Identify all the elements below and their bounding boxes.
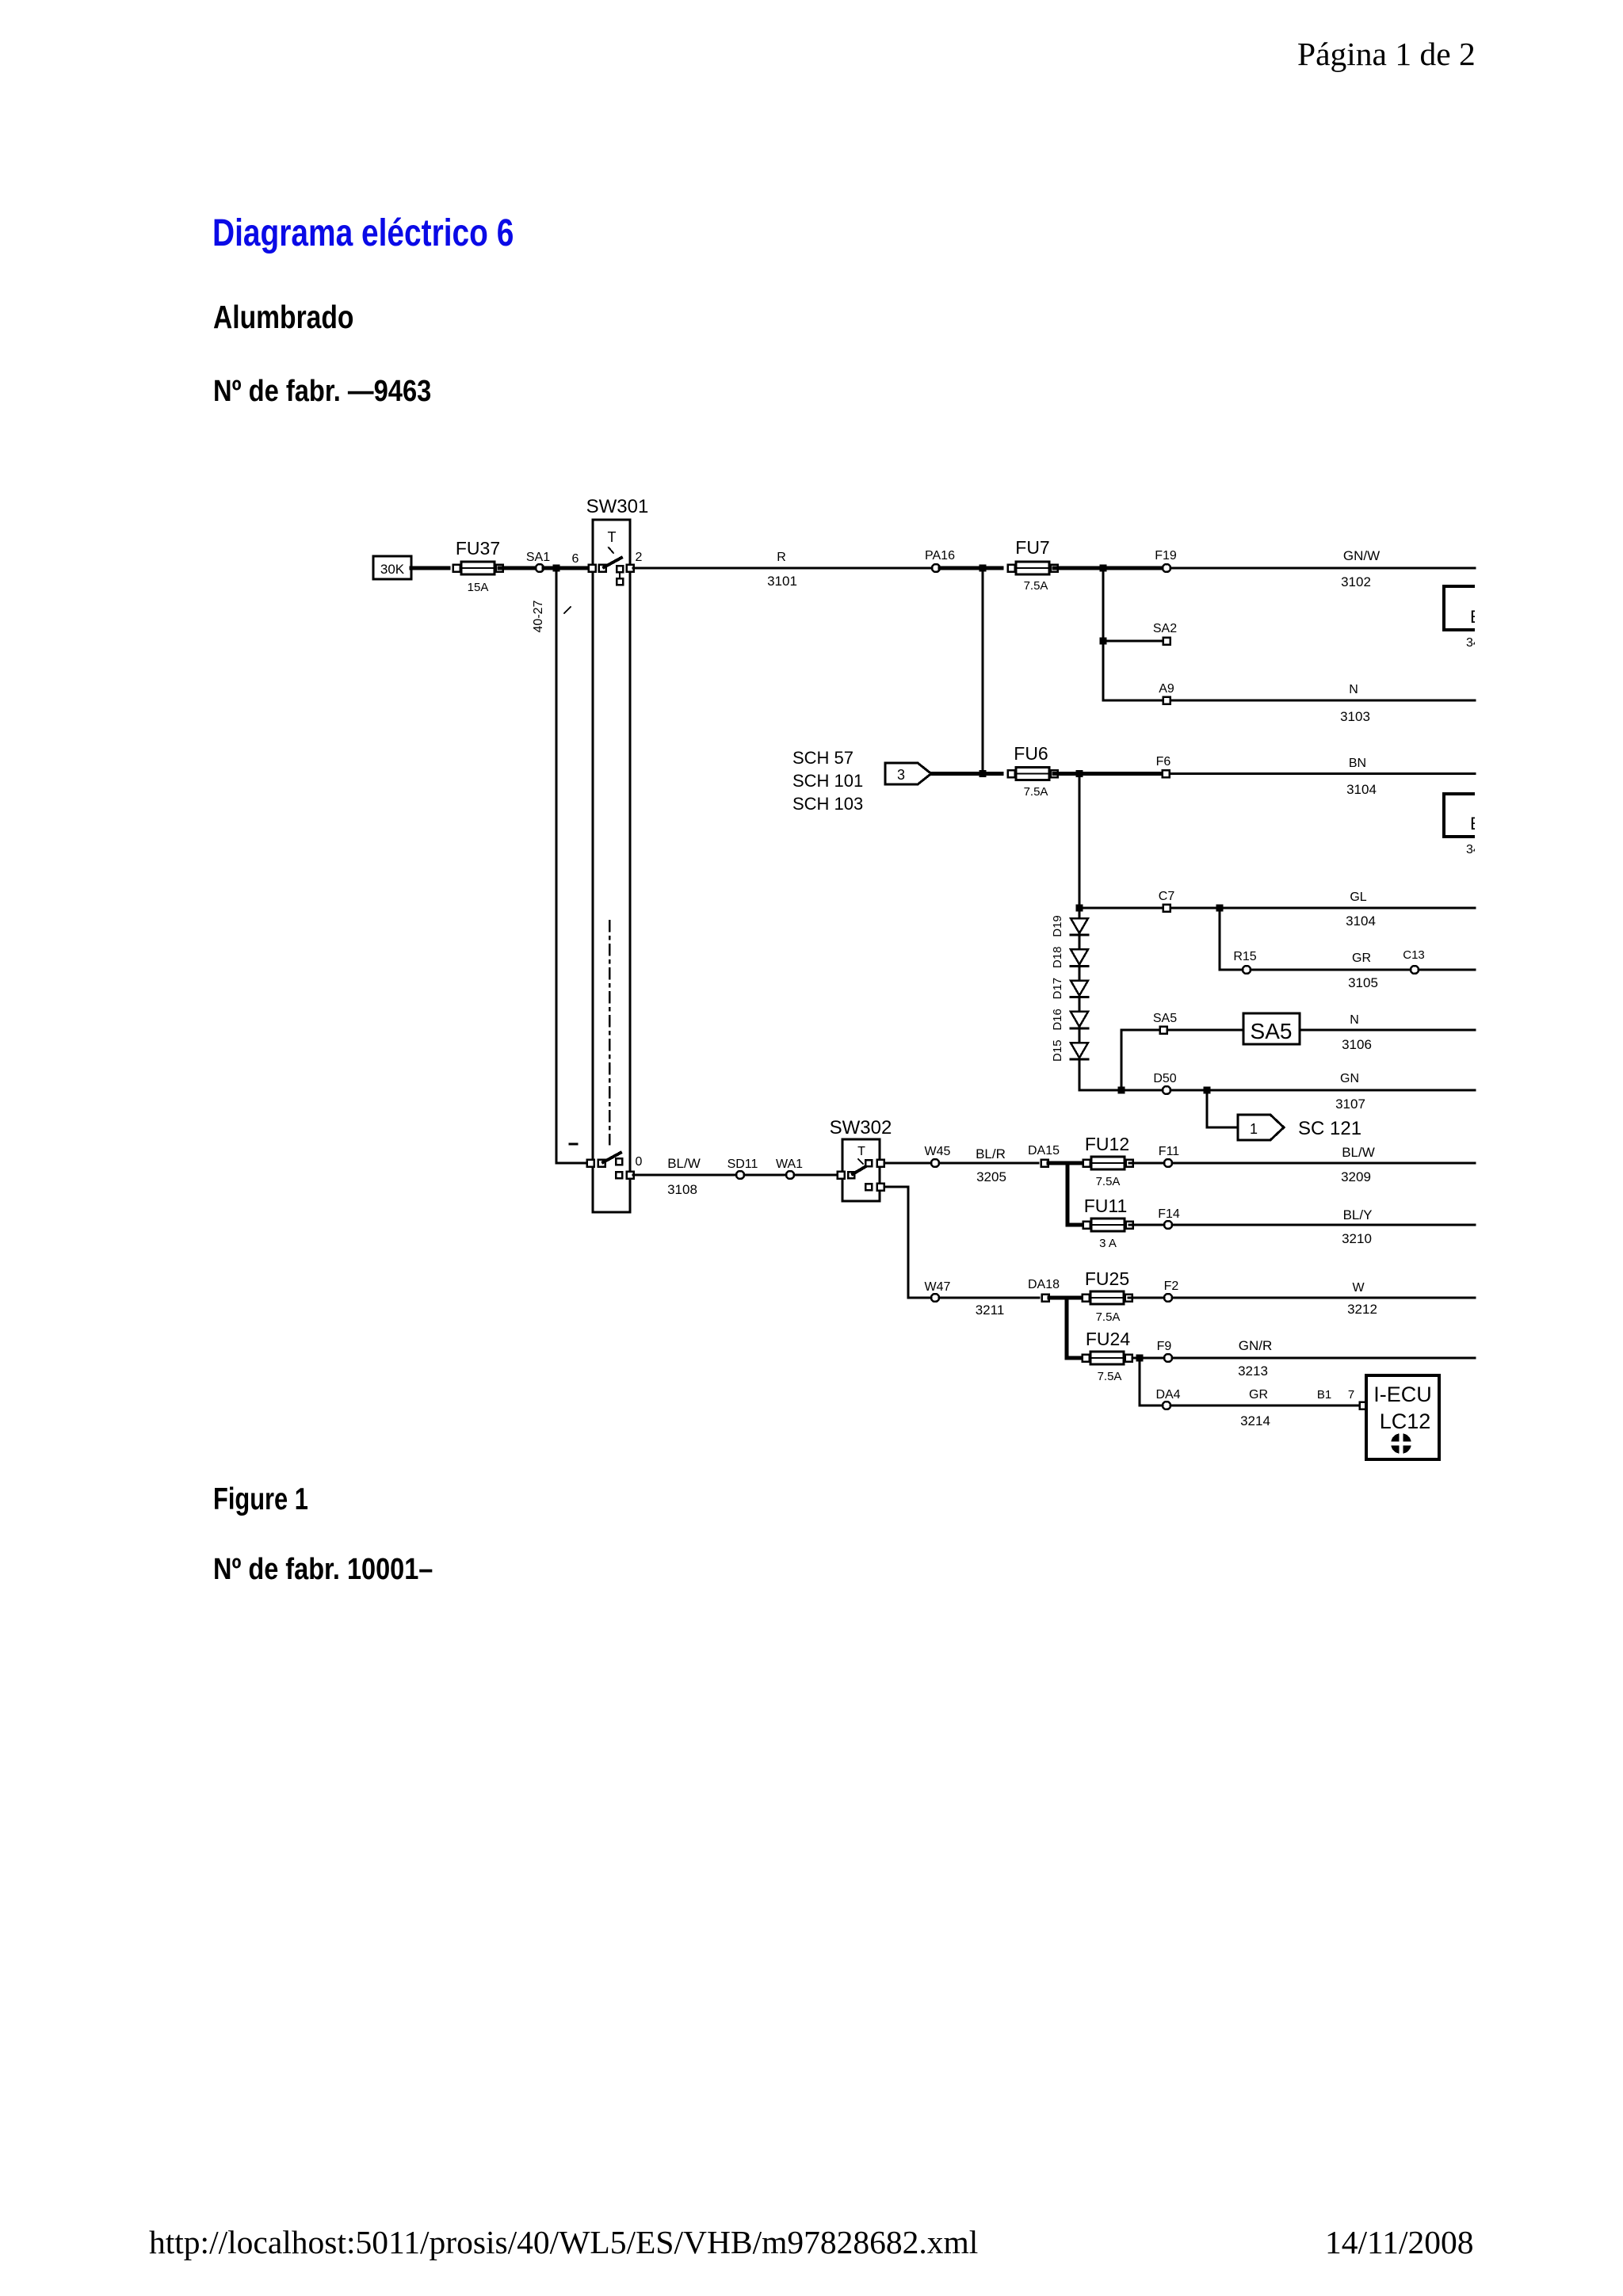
svg-text:WA1: WA1 <box>776 1158 803 1171</box>
SW302 contact lower <box>865 1184 872 1190</box>
svg-text:1: 1 <box>1250 1121 1258 1137</box>
wire N 3106 <box>1300 1029 1475 1032</box>
wire FU12 to F11 <box>1129 1162 1163 1165</box>
wire FU7 to F19 <box>1054 566 1162 570</box>
junction diode chain feed <box>1076 770 1083 777</box>
svg-text:F9: F9 <box>1157 1340 1172 1353</box>
svg-text:7.5A: 7.5A <box>1024 579 1048 593</box>
wire N 3103 <box>1170 700 1475 702</box>
svg-text:BL/R: BL/R <box>976 1146 1006 1161</box>
svg-text:FU7: FU7 <box>1015 537 1049 558</box>
SW301 contact 0 <box>616 1155 643 1178</box>
SW301 pin 6 <box>572 552 596 572</box>
svg-text:N: N <box>1349 683 1358 696</box>
svg-text:3214: 3214 <box>1240 1413 1270 1428</box>
wire BL/W 3209 <box>1172 1162 1475 1165</box>
svg-text:SW301: SW301 <box>586 496 649 517</box>
svg-text:W45: W45 <box>925 1145 951 1158</box>
svg-text:R15: R15 <box>1233 950 1256 963</box>
svg-text:40-27: 40-27 <box>532 600 545 632</box>
svg-text:F2: F2 <box>1164 1280 1179 1293</box>
diode D18 <box>1051 947 1088 969</box>
fuse FU6 <box>1008 768 1058 780</box>
wire to A9 <box>1103 700 1163 702</box>
svg-text:F6: F6 <box>1156 755 1171 769</box>
svg-text:DA15: DA15 <box>1028 1144 1060 1158</box>
SW302 pin left <box>838 1172 855 1179</box>
fuse FU11 <box>1083 1219 1133 1231</box>
svg-text:SD11: SD11 <box>727 1158 758 1171</box>
svg-text:7.5A: 7.5A <box>1098 1370 1122 1383</box>
svg-text:3108: 3108 <box>667 1182 697 1197</box>
SW301 lever bottom <box>598 1153 623 1167</box>
caption "Figure 1" <box>213 1484 308 1515</box>
connector F11 <box>1159 1145 1179 1167</box>
connector PA16 <box>925 549 955 572</box>
wire PA16 to FU7 <box>940 566 1002 570</box>
fuse FU25 <box>1083 1291 1132 1304</box>
SW301 pin 2 <box>627 551 643 572</box>
svg-text:BL/Y: BL/Y <box>1343 1207 1373 1222</box>
svg-text:3104: 3104 <box>1346 913 1376 929</box>
SW301 T marking <box>608 529 617 553</box>
wire down to SA2 / A9 <box>1102 571 1105 700</box>
svg-text:D18: D18 <box>1051 947 1064 969</box>
svg-text:GR: GR <box>1249 1388 1268 1402</box>
svg-text:T: T <box>857 1145 865 1158</box>
svg-text:FU24: FU24 <box>1086 1329 1130 1349</box>
svg-text:W47: W47 <box>925 1280 951 1294</box>
wire DA15 to FU12 <box>1048 1161 1083 1165</box>
svg-text:FU11: FU11 <box>1084 1196 1128 1216</box>
svg-text:SC 121: SC 121 <box>1298 1118 1361 1139</box>
svg-text:7.5A: 7.5A <box>1024 785 1048 799</box>
page footer URL <box>149 2226 978 2260</box>
wire FU6 to F6 <box>1054 772 1162 776</box>
wire R 3101 <box>633 567 932 570</box>
fuse FU24 <box>1083 1352 1132 1364</box>
subtitle "Nº de fabr. —9463" <box>213 376 431 406</box>
svg-text:3213: 3213 <box>1238 1363 1268 1379</box>
battery feed 30K <box>373 556 411 579</box>
svg-text:3105: 3105 <box>1348 975 1378 990</box>
svg-text:D15: D15 <box>1051 1039 1064 1062</box>
svg-text:15A: 15A <box>468 581 489 594</box>
feed wire DA15 down to FU11 <box>1067 1163 1086 1225</box>
svg-text:3104: 3104 <box>1346 782 1377 797</box>
svg-text:3211: 3211 <box>976 1302 1005 1318</box>
connector SD11 <box>727 1158 758 1179</box>
svg-text:D17: D17 <box>1051 978 1064 1000</box>
svg-text:W: W <box>1352 1281 1365 1295</box>
svg-text:7.5A: 7.5A <box>1096 1310 1121 1324</box>
svg-text:SCH 101: SCH 101 <box>792 771 863 791</box>
svg-text:FU12: FU12 <box>1085 1134 1129 1154</box>
svg-text:BN: BN <box>1349 757 1366 770</box>
stub wire to SA2 <box>1106 640 1163 643</box>
svg-text:BL/W: BL/W <box>1342 1145 1375 1160</box>
junction feed to FU6 <box>980 565 987 572</box>
svg-text:SCH 103: SCH 103 <box>792 794 863 814</box>
connector 1 (SC 121) <box>1238 1115 1284 1140</box>
connector DA15 <box>1028 1144 1060 1167</box>
svg-text:D19: D19 <box>1051 915 1064 937</box>
svg-text:FU6: FU6 <box>1014 743 1048 764</box>
svg-text:3: 3 <box>897 767 905 783</box>
lamp unit EL clipped top <box>1444 586 1491 650</box>
unit SA5 <box>1243 1013 1300 1044</box>
fuse FU7 <box>1008 562 1058 574</box>
svg-text:3107: 3107 <box>1335 1097 1365 1112</box>
wire BL/Y 3210 <box>1172 1224 1475 1226</box>
svg-text:7: 7 <box>1348 1388 1354 1402</box>
connector SA2 <box>1153 622 1177 645</box>
wire GN/R 3213 <box>1172 1357 1475 1360</box>
wire to R15 <box>1220 969 1243 971</box>
svg-text:SW302: SW302 <box>830 1117 892 1138</box>
diode D15 <box>1051 1039 1088 1062</box>
svg-text:34: 34 <box>1466 843 1480 856</box>
SW302 contact upper <box>865 1160 872 1166</box>
wire BL/W 3108 <box>633 1174 839 1177</box>
junction diode top / C7 row <box>1076 905 1083 912</box>
junction SA5 branch <box>1118 1087 1125 1094</box>
wire DA18 to FU25 <box>1049 1296 1083 1300</box>
svg-text:R: R <box>777 551 786 564</box>
svg-text:3 A: 3 A <box>1099 1237 1117 1250</box>
connector F19 <box>1155 549 1177 572</box>
svg-text:3210: 3210 <box>1342 1231 1372 1246</box>
wire feed down to FU6 row <box>982 571 984 773</box>
svg-text:0: 0 <box>636 1155 643 1169</box>
diode chain wire <box>1079 776 1081 1090</box>
svg-text:6: 6 <box>572 552 579 566</box>
svg-text:D16: D16 <box>1051 1009 1064 1031</box>
connector D50 <box>1153 1072 1176 1094</box>
connector SA5 <box>1153 1012 1177 1034</box>
svg-text:3209: 3209 <box>1341 1169 1371 1184</box>
connector W45 <box>925 1145 951 1167</box>
caption "Nº de fabr. 10001–" <box>213 1554 433 1585</box>
svg-text:FU37: FU37 <box>456 538 500 559</box>
SW302 T marking <box>857 1145 865 1164</box>
svg-text:3212: 3212 <box>1347 1302 1377 1317</box>
svg-text:34: 34 <box>1466 636 1480 650</box>
svg-text:GR: GR <box>1352 952 1371 965</box>
switch SW302 body <box>842 1139 880 1201</box>
SW301 pin 1 tick <box>570 1143 577 1146</box>
junction I-ECU branch <box>1136 1355 1144 1362</box>
tick label on vertical wire <box>564 607 571 613</box>
wire GN 3107 <box>1079 1089 1475 1092</box>
wire down to R15 row <box>1219 908 1221 970</box>
svg-text:F11: F11 <box>1159 1145 1179 1158</box>
feed wire DA18 down to FU24 <box>1067 1298 1086 1358</box>
svg-text:SA5: SA5 <box>1153 1012 1177 1025</box>
SW302 lever <box>853 1164 870 1174</box>
svg-text:B1: B1 <box>1317 1388 1331 1402</box>
wire GN/W 3102 <box>1171 567 1475 570</box>
svg-text:EL: EL <box>1470 607 1491 627</box>
connector WA1 <box>776 1158 803 1179</box>
svg-text:GN/W: GN/W <box>1343 548 1380 563</box>
svg-text:SA2: SA2 <box>1153 622 1177 635</box>
wire GL 3104 <box>1170 907 1475 910</box>
wire W 3212 <box>1172 1297 1475 1299</box>
svg-text:T: T <box>608 529 617 545</box>
wire SA1 to SW301 pin 6 <box>544 566 590 570</box>
page footer date <box>1325 2226 1474 2260</box>
svg-text:D50: D50 <box>1153 1072 1176 1085</box>
diode D17 <box>1051 978 1088 1000</box>
svg-text:30K: 30K <box>380 562 405 577</box>
diode D19 <box>1051 915 1088 937</box>
wire FU11 to F14 <box>1129 1224 1163 1226</box>
I-ECU pin <box>1360 1402 1367 1409</box>
wire BN 3104 <box>1170 772 1475 775</box>
wire FU37 to SA1 <box>499 566 536 570</box>
wire J1 down to SW301 pin 1 <box>556 571 590 1163</box>
junction J1 <box>553 565 560 572</box>
connector F2 <box>1164 1280 1179 1302</box>
SW301 contact 8 <box>617 566 623 585</box>
svg-text:3103: 3103 <box>1340 709 1370 724</box>
connector DA18 <box>1028 1278 1060 1302</box>
svg-text:3101: 3101 <box>767 574 797 589</box>
fuse FU37 <box>453 562 503 574</box>
wire GR 3214 <box>1140 1405 1360 1407</box>
SW301 lever top contact <box>599 558 622 572</box>
svg-text:SCH 57: SCH 57 <box>792 748 854 768</box>
svg-text:FU25: FU25 <box>1085 1268 1129 1289</box>
title "Diagrama eléctrico 6" <box>212 215 514 253</box>
svg-text:3106: 3106 <box>1342 1037 1372 1052</box>
lamp unit EL clipped bottom <box>1444 794 1491 856</box>
fuse FU12 <box>1083 1157 1133 1169</box>
svg-text:PA16: PA16 <box>925 549 955 563</box>
svg-text:F19: F19 <box>1155 549 1177 563</box>
wire 3 to FU6 <box>931 772 1002 776</box>
svg-text:EL: EL <box>1470 814 1491 833</box>
svg-text:3205: 3205 <box>976 1169 1006 1184</box>
connector F9 <box>1157 1340 1172 1362</box>
subtitle "Alumbrado" <box>213 301 353 334</box>
SW301 pin 0 <box>627 1172 634 1179</box>
svg-text:GN: GN <box>1340 1072 1359 1085</box>
control unit I-ECU LC12 <box>1366 1375 1439 1459</box>
connector A9 <box>1159 682 1174 704</box>
svg-text:SA5: SA5 <box>1251 1019 1293 1043</box>
wire corner into SA5 row <box>1121 1030 1160 1087</box>
connector 3 (to SCH diagrams) <box>885 763 931 784</box>
connector F14 <box>1158 1207 1180 1229</box>
junction FU6 feed <box>980 770 987 777</box>
svg-text:LC12: LC12 <box>1380 1409 1431 1433</box>
SW301 dashed coupling <box>609 921 611 1144</box>
svg-text:DA18: DA18 <box>1028 1278 1060 1291</box>
connector C13 <box>1403 948 1425 974</box>
svg-text:2: 2 <box>636 551 643 564</box>
svg-text:DA4: DA4 <box>1155 1388 1180 1402</box>
wire FU25 to F2 <box>1128 1297 1163 1299</box>
wire SW302 to DA18 (3211) <box>884 1187 1039 1298</box>
svg-text:BL/W: BL/W <box>667 1156 701 1171</box>
svg-text:GL: GL <box>1350 891 1366 904</box>
SW302 pin upper right <box>877 1160 884 1167</box>
junction GR branch <box>1216 905 1224 912</box>
wire FU24 to F9 <box>1132 1357 1163 1360</box>
svg-text:F14: F14 <box>1158 1207 1180 1221</box>
SW302 pin lower right <box>877 1184 884 1191</box>
svg-text:C13: C13 <box>1403 948 1425 962</box>
wire down to DA4 <box>1139 1361 1141 1405</box>
svg-text:I-ECU: I-ECU <box>1373 1383 1432 1406</box>
connector 3 labels SCH 57 / SCH 101 / SCH 103 <box>792 748 863 814</box>
wire 30K to FU37 <box>411 566 449 570</box>
wire SW302 to DA15 (BL/R 3205) <box>884 1162 1038 1165</box>
junction after FU7 <box>1100 565 1107 572</box>
page header "Página 1 de 2" <box>1297 38 1476 71</box>
svg-text:C7: C7 <box>1159 890 1175 903</box>
svg-text:SA1: SA1 <box>526 551 550 564</box>
wire down to SC121 <box>1207 1093 1238 1127</box>
connector C7 <box>1159 890 1175 912</box>
switch SW301 body <box>593 520 630 1212</box>
svg-text:3102: 3102 <box>1341 574 1371 589</box>
svg-text:7.5A: 7.5A <box>1096 1175 1121 1188</box>
wire SA5 connector to unit SA5 <box>1167 1029 1243 1032</box>
SW301 pin 1 <box>587 1160 594 1167</box>
connector SA1 <box>526 551 550 572</box>
svg-text:N: N <box>1350 1013 1359 1027</box>
svg-text:A9: A9 <box>1159 682 1174 696</box>
connector R15 <box>1233 950 1256 974</box>
connector W47 <box>925 1280 951 1302</box>
connector F6 <box>1156 755 1171 777</box>
connector DA4 <box>1155 1388 1180 1409</box>
wire to C7 <box>1083 907 1163 910</box>
junction SA2 stub <box>1100 638 1107 645</box>
svg-text:GN/R: GN/R <box>1239 1338 1273 1353</box>
junction SC121 branch <box>1204 1087 1211 1094</box>
wire GR 3105 <box>1251 969 1475 971</box>
diode D16 <box>1051 1009 1088 1031</box>
